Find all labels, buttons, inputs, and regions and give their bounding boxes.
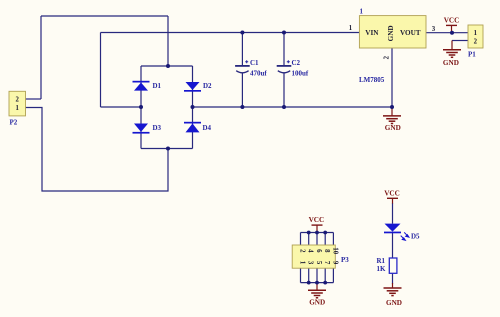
node bridge bottom <box>166 147 170 151</box>
wire: VOUT to P1 pin 1 <box>426 32 468 34</box>
P3 pin numbers 2 4 6 8 10 top row <box>299 247 339 254</box>
svg-text:6: 6 <box>315 249 322 253</box>
svg-text:D5: D5 <box>411 232 420 240</box>
wire: C1 bottom lead <box>241 73 243 107</box>
wire: R1 to ground <box>392 274 394 285</box>
svg-text:2: 2 <box>299 249 306 253</box>
wire: P2 pin 2 stub <box>26 98 42 100</box>
svg-text:3: 3 <box>307 261 314 265</box>
wire: LED D5 cathode to R1 <box>392 233 394 258</box>
svg-text:100uf: 100uf <box>292 69 309 77</box>
capacitor C1 <box>235 59 267 77</box>
svg-text:2: 2 <box>474 39 478 46</box>
wire: P3 bottom rail <box>301 282 334 284</box>
svg-text:D1: D1 <box>153 82 162 90</box>
diode D3 <box>133 124 162 134</box>
ground at R1 <box>384 283 402 307</box>
wire: VIN rail to regulator <box>101 32 360 34</box>
svg-text:P1: P1 <box>468 51 476 59</box>
svg-text:LM7805: LM7805 <box>359 76 385 84</box>
node P3 top rail junctions <box>307 231 311 235</box>
svg-text:P3: P3 <box>341 256 349 264</box>
node VCC at regulator output <box>450 31 454 35</box>
wire: top horizontal from left corner to bridge top tap <box>41 15 168 17</box>
wire: link to bridge left-mid node <box>101 106 142 108</box>
svg-text:7: 7 <box>323 261 330 265</box>
wire: P3 top rail <box>301 232 334 234</box>
wire: GND rail from bridge right-mid node to regulator GND pin <box>193 106 393 108</box>
resistor R1 <box>377 257 397 273</box>
svg-text:P2: P2 <box>10 118 18 126</box>
wire: C1 top lead <box>241 33 243 66</box>
svg-text:1K: 1K <box>377 265 387 273</box>
wire: VCC to LED D5 anode <box>392 203 394 224</box>
wire: bridge top tap vertical <box>167 16 169 66</box>
svg-text:10: 10 <box>331 247 338 254</box>
svg-text:D3: D3 <box>153 124 162 132</box>
svg-text:C1: C1 <box>250 59 259 67</box>
svg-text:9: 9 <box>331 261 338 265</box>
wire: bridge top rail <box>141 65 193 67</box>
svg-text:2: 2 <box>383 55 390 59</box>
svg-text:1: 1 <box>299 261 306 265</box>
svg-text:D4: D4 <box>203 124 212 132</box>
node bridge top <box>166 64 170 68</box>
diode D4 <box>184 122 212 133</box>
svg-text:R1: R1 <box>377 257 386 265</box>
svg-text:GND: GND <box>387 25 395 41</box>
node C2 top <box>282 31 286 35</box>
svg-text:4: 4 <box>307 249 314 253</box>
power VCC at P3 <box>309 216 325 233</box>
connector P2 <box>9 91 26 126</box>
wire: bridge bottom rail <box>141 148 193 150</box>
LED D5 <box>384 224 420 241</box>
svg-text:VCC: VCC <box>384 190 400 198</box>
node C2 bottom <box>282 105 286 109</box>
node P3 bottom rail junctions <box>307 281 311 285</box>
svg-text:C2: C2 <box>292 59 301 67</box>
svg-text:VOUT: VOUT <box>400 29 421 37</box>
node C1 bottom <box>240 105 244 109</box>
wire: C2 bottom lead <box>283 73 285 107</box>
wire: C2 top lead <box>283 33 285 66</box>
node bridge left-mid <box>139 105 143 109</box>
svg-text:1: 1 <box>15 105 19 112</box>
svg-text:470uf: 470uf <box>250 69 267 77</box>
regulator U1 LM7805 <box>349 8 436 85</box>
diode D2 <box>184 82 212 92</box>
power VCC at D5 branch <box>384 190 400 204</box>
svg-text:2: 2 <box>15 97 19 104</box>
wire: P3 bottom pin columns <box>300 268 302 282</box>
ground at P3 <box>308 283 326 307</box>
capacitor C2 <box>277 59 309 77</box>
wire: P1 pin 2 stub <box>452 40 468 42</box>
svg-text:3: 3 <box>432 26 436 33</box>
diode D1 <box>133 81 162 91</box>
wire: regulator GND pin 2 vertical <box>391 48 393 107</box>
node regulator GND <box>390 105 394 109</box>
ground at P1 pin 2 <box>443 41 461 67</box>
wire: left vertical down to P2 pin 2 <box>40 16 42 99</box>
wire: left loop vertical <box>100 33 102 108</box>
wire: P2 pin 1 loop down and right to bridge bottom node <box>26 108 169 192</box>
connector P1 <box>468 25 483 59</box>
svg-text:D2: D2 <box>203 82 212 90</box>
svg-text:5: 5 <box>315 261 322 265</box>
wire: P3 top pin columns <box>300 233 302 246</box>
node C1 top <box>240 31 244 35</box>
wire: bridge left branch <box>140 66 142 149</box>
svg-text:GND: GND <box>386 299 402 307</box>
svg-text:1: 1 <box>349 25 353 32</box>
svg-text:VCC: VCC <box>444 17 460 25</box>
P3 pin numbers 1 3 5 7 9 bottom row <box>299 261 339 265</box>
svg-text:VIN: VIN <box>365 29 379 37</box>
svg-text:1: 1 <box>360 8 364 16</box>
svg-text:8: 8 <box>323 249 330 253</box>
wire: bridge right branch <box>192 66 194 149</box>
node bridge right-mid <box>191 105 195 109</box>
svg-text:VCC: VCC <box>309 216 325 224</box>
svg-text:GND: GND <box>309 298 325 306</box>
svg-text:GND: GND <box>385 124 401 132</box>
svg-text:GND: GND <box>443 59 459 67</box>
svg-text:1: 1 <box>474 30 478 37</box>
connector P3 <box>292 245 349 268</box>
power VCC at regulator output <box>444 17 460 33</box>
ground at regulator GND pin <box>383 107 401 132</box>
